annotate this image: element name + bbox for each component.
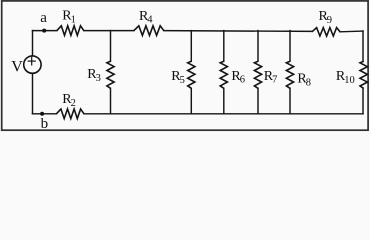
svg-text:b: b — [41, 116, 49, 132]
svg-text:10: 10 — [344, 75, 355, 86]
svg-text:1: 1 — [71, 14, 76, 25]
svg-text:4: 4 — [147, 15, 153, 26]
svg-text:5: 5 — [180, 75, 185, 86]
svg-text:a: a — [40, 10, 47, 26]
svg-text:9: 9 — [327, 15, 332, 26]
svg-text:6: 6 — [240, 75, 245, 86]
svg-text:3: 3 — [96, 73, 101, 84]
svg-text:2: 2 — [71, 98, 76, 109]
svg-text:V: V — [11, 58, 23, 75]
svg-text:7: 7 — [272, 75, 277, 86]
svg-text:8: 8 — [306, 77, 311, 88]
